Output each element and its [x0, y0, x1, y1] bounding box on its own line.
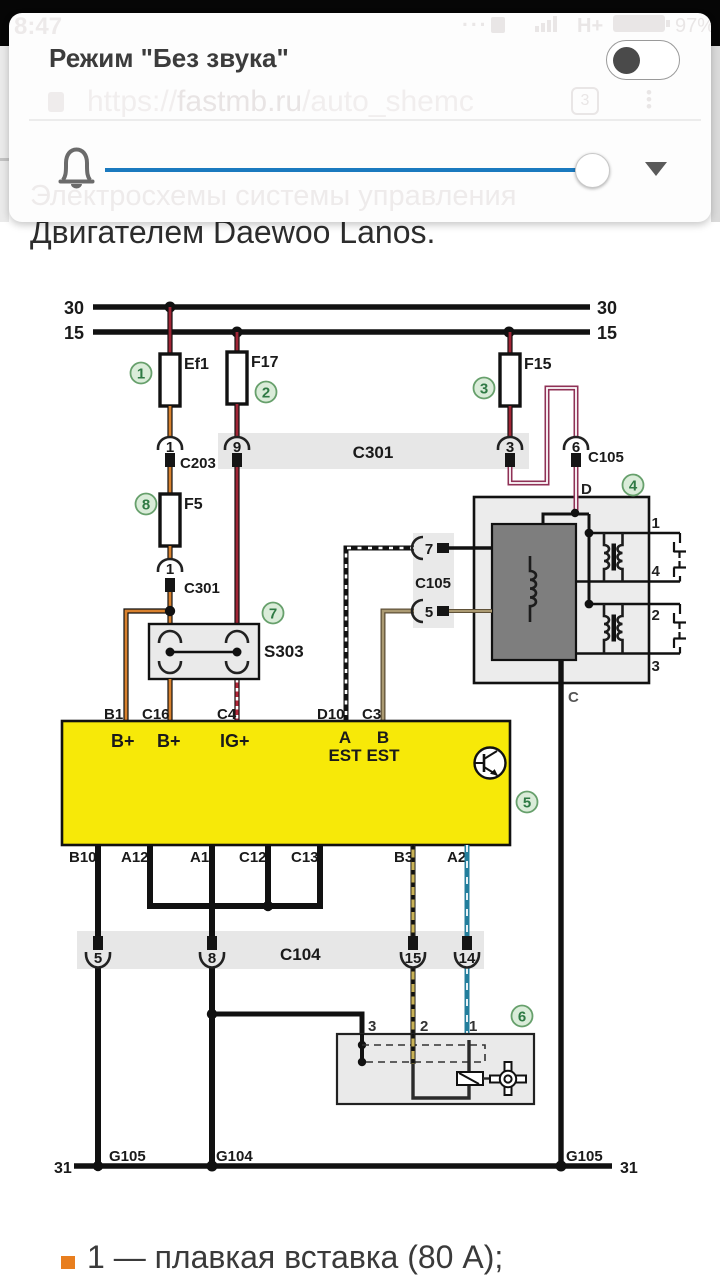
svg-text:D10: D10: [317, 706, 345, 723]
svg-text:A2: A2: [447, 849, 466, 866]
svg-text:D: D: [581, 481, 592, 498]
svg-text:A1: A1: [190, 849, 209, 866]
svg-text:8: 8: [142, 497, 150, 514]
svg-text:15: 15: [405, 950, 422, 967]
svg-text:EST: EST: [328, 746, 362, 765]
svg-text:G105: G105: [566, 1148, 603, 1165]
svg-text:5: 5: [425, 604, 433, 621]
svg-text:C301: C301: [353, 443, 394, 462]
svg-text:C104: C104: [280, 945, 321, 964]
svg-text:2: 2: [420, 1018, 428, 1035]
svg-text:C4: C4: [217, 706, 237, 723]
svg-text:1: 1: [469, 1018, 477, 1035]
svg-text:8: 8: [208, 950, 216, 967]
svg-text:C105: C105: [415, 575, 451, 592]
svg-text:7: 7: [425, 541, 433, 558]
svg-text:1: 1: [652, 515, 660, 532]
svg-text:3: 3: [480, 381, 488, 398]
svg-text:C3: C3: [362, 706, 381, 723]
svg-text:A: A: [339, 728, 351, 747]
svg-text:C: C: [568, 689, 579, 706]
svg-text:IG+: IG+: [220, 731, 250, 751]
svg-text:B: B: [377, 728, 389, 747]
svg-text:Ef1: Ef1: [184, 356, 209, 373]
svg-text:C105: C105: [588, 449, 624, 466]
svg-text:97%: 97%: [675, 15, 711, 37]
svg-text:F15: F15: [524, 356, 552, 373]
svg-text:A12: A12: [121, 849, 149, 866]
svg-text:S303: S303: [264, 642, 304, 661]
svg-text:2: 2: [262, 385, 270, 402]
svg-text:1: 1: [137, 366, 145, 383]
svg-text:30: 30: [597, 298, 617, 318]
svg-text:5: 5: [94, 950, 102, 967]
svg-text:5: 5: [523, 795, 531, 812]
svg-text:B+: B+: [157, 731, 181, 751]
svg-text:15: 15: [597, 323, 617, 343]
svg-text:30: 30: [64, 298, 84, 318]
svg-text:C12: C12: [239, 849, 267, 866]
svg-text:4: 4: [629, 478, 638, 495]
svg-text:B3: B3: [394, 849, 413, 866]
svg-text:B+: B+: [111, 731, 135, 751]
svg-text:31: 31: [620, 1160, 638, 1177]
svg-text:C16: C16: [142, 706, 170, 723]
svg-text:B1: B1: [104, 706, 123, 723]
svg-text:1: 1: [166, 561, 174, 578]
svg-text:B10: B10: [69, 849, 97, 866]
svg-text:3: 3: [368, 1018, 376, 1035]
svg-text:C301: C301: [184, 580, 220, 597]
svg-text:G105: G105: [109, 1148, 146, 1165]
svg-text:6: 6: [518, 1009, 526, 1026]
svg-text:H+: H+: [577, 15, 603, 37]
svg-text:F17: F17: [251, 354, 279, 371]
svg-text:2: 2: [652, 607, 660, 624]
svg-text:G104: G104: [216, 1148, 253, 1165]
svg-text:EST: EST: [366, 746, 400, 765]
svg-text:14: 14: [459, 950, 476, 967]
svg-text:31: 31: [54, 1160, 72, 1177]
svg-text:C203: C203: [180, 455, 216, 472]
svg-text:4: 4: [652, 563, 661, 580]
svg-text:7: 7: [269, 606, 277, 623]
svg-text:3: 3: [652, 658, 660, 675]
svg-text:15: 15: [64, 323, 84, 343]
svg-text:F5: F5: [184, 496, 203, 513]
svg-text:C13: C13: [291, 849, 319, 866]
